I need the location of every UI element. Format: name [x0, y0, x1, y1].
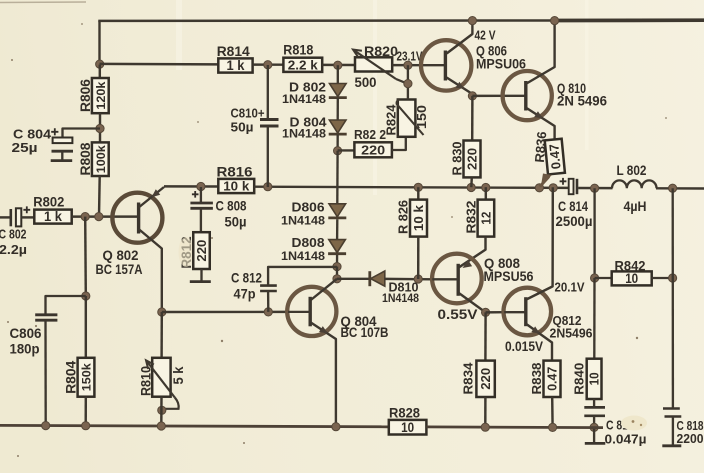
svg-text:MPSU06: MPSU06 [476, 57, 526, 72]
transistor Q806 emitter arrow [456, 82, 467, 92]
node R826 bottom junction [414, 275, 422, 283]
svg-text:D808: D808 [292, 235, 325, 250]
svg-text:20.1V: 20.1V [555, 280, 585, 295]
node Q812 base junction [482, 308, 490, 316]
node R832 top junction [482, 183, 490, 191]
svg-text:C 812: C 812 [231, 271, 262, 286]
transistor Q810 circle [503, 71, 552, 120]
resistor R838 [544, 361, 561, 397]
capacitor C804 plus mark [51, 128, 58, 135]
capacitor C802 plus mark [23, 206, 30, 213]
capacitor C810 top plate [260, 118, 279, 121]
wire D808 to node A [336, 255, 338, 267]
node C816 bottom rail junction [590, 423, 598, 431]
wire C812 top branch [268, 267, 337, 285]
svg-text:1N4148: 1N4148 [382, 291, 419, 305]
svg-text:100k: 100k [94, 145, 108, 173]
svg-text:C 802: C 802 [0, 227, 27, 242]
wire R818 to R820 [322, 64, 355, 67]
svg-text:220: 220 [194, 240, 209, 262]
wire C816 bottom stub [593, 427, 595, 442]
wire C806 branch [46, 296, 86, 314]
wire top supply rail thick right segment [556, 18, 704, 22]
wire bottom rail left of R828 [0, 425, 389, 426]
transistor Q802 collector lead [139, 229, 162, 312]
resistor R836 box tilted [545, 139, 565, 175]
svg-text:D806: D806 [292, 200, 325, 215]
capacitor C814 plus mark [560, 178, 567, 185]
node C810 bottom junction [264, 183, 272, 191]
wire R826 bottom lead [417, 237, 420, 279]
svg-text:R828: R828 [389, 405, 420, 421]
capacitor C804 top plate [53, 138, 73, 144]
resistor R824 box [398, 100, 416, 137]
svg-text:R824: R824 [384, 105, 398, 136]
node R806 top junction [96, 60, 104, 68]
transistor Q808 circle [432, 254, 482, 304]
svg-text:0.47: 0.47 [546, 367, 560, 391]
wire R812 bottom lead [200, 269, 202, 281]
wire R840 to C816 [593, 399, 595, 407]
wire emitter rail left segment [164, 185, 218, 188]
svg-text:23.1V: 23.1V [397, 50, 424, 64]
capacitor C808 top plate [190, 202, 213, 205]
wire R822 left lead [338, 149, 355, 151]
transistor Q806 circle [421, 40, 471, 90]
svg-text:10: 10 [401, 420, 414, 435]
resistor R822 [354, 142, 392, 157]
capacitor C814 right plate [576, 179, 579, 194]
capacitor C812 bottom plate [260, 290, 277, 293]
svg-text:R832: R832 [464, 201, 479, 234]
svg-text:C806: C806 [10, 326, 42, 341]
wire node B to D810 cathode [337, 278, 370, 280]
svg-text:0.047µ: 0.047µ [605, 432, 647, 447]
capacitor C816 bottom plate [584, 414, 605, 417]
svg-text:2200: 2200 [677, 431, 704, 446]
potentiometer R810 wiper hook [162, 398, 179, 409]
transistor Q810 base bar [524, 81, 527, 111]
node C806 bottom junction [42, 422, 50, 430]
wire R804 top lead [85, 296, 87, 358]
resistor R830 [464, 141, 481, 178]
svg-text:R 826: R 826 [396, 200, 411, 234]
wire D804 to R822 node [336, 135, 338, 151]
resistor R840 [587, 359, 602, 399]
svg-text:220: 220 [478, 368, 493, 390]
capacitor C806 bottom plate [35, 319, 57, 322]
transistor Q810 emitter lead [527, 108, 555, 140]
svg-text:50µ: 50µ [225, 215, 247, 230]
transistor Q804 base bar [309, 297, 312, 327]
svg-text:R838: R838 [529, 363, 544, 395]
svg-text:0.015V: 0.015V [505, 339, 543, 354]
wire bottom rail right of R828 [426, 425, 603, 429]
wire D810 anode to Q808 base [385, 278, 433, 281]
resistor R812 smear blob [179, 237, 194, 267]
wire R832 bottom lead to Q808 emitter [459, 237, 485, 268]
svg-text:1N4148: 1N4148 [281, 249, 325, 263]
capacitor C818 bottom plate [665, 415, 682, 418]
node R810 wiper junction [158, 406, 166, 414]
wire R834 bottom lead [484, 397, 487, 427]
inductor L802 [612, 180, 657, 188]
capacitor C816 top plate [584, 406, 605, 409]
wire R832 top lead [485, 187, 487, 199]
svg-text:220: 220 [361, 142, 385, 157]
scan crease artifacts [373, 0, 377, 195]
node R810 bottom junction [157, 422, 165, 430]
node R842 left junction [591, 274, 599, 282]
svg-text:L 802: L 802 [617, 163, 647, 178]
node R820 wiper junction [404, 80, 412, 88]
node C810 top junction [264, 61, 272, 69]
svg-text:R840: R840 [571, 363, 586, 395]
svg-text:C 808: C 808 [216, 198, 247, 213]
node C808 junction [197, 182, 205, 190]
transistor Q806 collector lead [447, 21, 473, 54]
svg-text:150k: 150k [80, 363, 94, 391]
wire R824 top lead [407, 65, 409, 99]
diode D806 [329, 204, 346, 217]
wire feedback column upper [84, 217, 87, 296]
resistor R816 [218, 179, 254, 193]
wire R806 to R808 [99, 113, 101, 142]
node R804 bottom junction [82, 422, 90, 430]
transistor Q812 emitter lead [526, 324, 552, 361]
diode D810 [371, 271, 385, 286]
svg-text:150: 150 [415, 105, 429, 129]
diode D804 [329, 120, 346, 133]
transistor Q804 circle [287, 287, 336, 336]
wire Q810 base from Q806 emitter [472, 95, 503, 98]
diode D802 [330, 84, 347, 97]
wire row-B to R814 [100, 63, 219, 66]
resistor R806 [92, 78, 109, 113]
transistor Q802 emitter arrow PNP [149, 189, 160, 200]
svg-text:R804: R804 [62, 361, 78, 394]
svg-text:1N4148: 1N4148 [282, 126, 326, 140]
terminal bar below C816 [585, 442, 606, 445]
svg-text:47p: 47p [234, 287, 256, 302]
node R822 left junction [334, 147, 342, 155]
wire R834 top lead [484, 312, 487, 360]
node Q804 emitter bottom junction [332, 423, 340, 431]
transistor Q812 base bar [524, 297, 527, 326]
node R842 right junction [669, 274, 677, 282]
resistor R842 [612, 271, 652, 285]
wire C808 to R812 [200, 208, 202, 232]
svg-text:R816: R816 [217, 164, 253, 180]
resistor R832 [478, 200, 495, 237]
wire R838 bottom lead [551, 397, 554, 427]
wire D802 to D804 [337, 98, 339, 120]
diode D810 cathode bar [368, 271, 371, 286]
wire C806 bottom lead [44, 320, 47, 426]
wire R830 bottom lead [470, 177, 473, 187]
transistor Q808 collector lead [459, 293, 486, 312]
svg-text:10: 10 [625, 271, 638, 286]
svg-text:2.2 k: 2.2 k [288, 57, 319, 72]
node R836 bottom junction [535, 184, 543, 192]
resistor R814 [218, 58, 252, 72]
transistor Q802 base bar [137, 203, 140, 234]
svg-text:R 830: R 830 [449, 142, 464, 176]
node A C812 branch junction [333, 263, 341, 271]
svg-text:220: 220 [465, 148, 480, 170]
svg-text:R818: R818 [283, 42, 313, 58]
transistor Q812 emitter arrow [531, 326, 542, 336]
wire R806 top lead [99, 65, 101, 78]
terminal bar below R812 [190, 280, 211, 283]
wire Q804 base [162, 311, 288, 314]
resistor R824 diagonal [397, 99, 424, 135]
capacitor C802 right plate [16, 208, 21, 226]
wire Q812 base [486, 311, 505, 314]
capacitor C802 left plate [10, 209, 13, 226]
transistor Q804 collector lead [311, 279, 337, 300]
svg-text:C 814: C 814 [558, 199, 588, 214]
svg-text:1 k: 1 k [226, 58, 244, 73]
wire R842 column upper [593, 188, 595, 278]
trimmer R820 box [355, 57, 392, 71]
wire C814 to L802 [578, 187, 612, 190]
transistor Q812 collector lead [526, 187, 553, 299]
wire R808 bottom lead [98, 176, 101, 217]
wire C816 to bottom rail [593, 416, 595, 427]
wire diode chain through rail [336, 151, 339, 204]
resistor R818 [283, 58, 322, 72]
transistor Q808 base bar [457, 264, 460, 296]
wire R804 bottom lead [84, 397, 87, 427]
diode D808 [329, 240, 346, 253]
transistor Q808 emitter arrow PNP [460, 260, 472, 271]
svg-text:R814: R814 [217, 43, 250, 59]
svg-text:R806: R806 [77, 79, 93, 112]
resistor R828 [389, 420, 427, 435]
svg-text:MPSU56: MPSU56 [484, 269, 534, 284]
svg-text:R834: R834 [460, 362, 475, 395]
capacitor C818 top plate [663, 407, 680, 410]
resistor R812 [193, 232, 210, 269]
svg-text:120k: 120k [94, 81, 108, 109]
wire C804 branch [63, 129, 101, 138]
wire corner drop from top rail to R806 node [98, 21, 100, 65]
transistor Q810 collector lead [527, 21, 555, 84]
svg-text:0.47: 0.47 [546, 143, 563, 170]
node B Q804 collector junction [333, 275, 341, 283]
terminal bar below C818 [662, 444, 681, 447]
wire R820 to Q806 base [392, 64, 421, 67]
svg-text:25µ: 25µ [12, 140, 38, 155]
potentiometer R810 box [152, 358, 170, 397]
node R826 top junction [414, 183, 422, 191]
wire R842 left lead [595, 277, 612, 279]
capacitor C810 bottom plate [260, 125, 279, 128]
capacitor C814 left plate [569, 179, 574, 194]
svg-text:4µH: 4µH [624, 199, 647, 214]
wire D802 anode lead [337, 65, 339, 83]
wire L802 to right edge [656, 187, 704, 190]
node Q804 base branch junction [158, 308, 166, 316]
node D802 top junction [334, 61, 342, 69]
transistor Q804 emitter lead [311, 323, 336, 427]
transistor Q808 base lead inside [432, 278, 458, 280]
wire R814 to R818 [253, 63, 284, 66]
transistor Q812 circle [504, 288, 552, 336]
svg-text:C810+: C810+ [231, 106, 265, 121]
node Q806 base junction [404, 61, 412, 69]
potentiometer R810 wiper arrow diagonal [147, 362, 175, 398]
wire R830 top lead [471, 96, 474, 141]
transistor Q806 base bar [444, 51, 447, 81]
resistor R836 bottom lead wedge [541, 174, 552, 186]
node output right junction [669, 184, 677, 192]
node C812 bottom junction [264, 308, 272, 316]
svg-text:1N4148: 1N4148 [281, 213, 325, 227]
wire input from left edge [0, 216, 10, 218]
svg-text:180p: 180p [10, 342, 40, 357]
svg-text:10: 10 [587, 372, 602, 385]
wire C812 bottom lead [267, 291, 270, 312]
node C806 branch junction [82, 292, 90, 300]
svg-text:2500µ: 2500µ [556, 214, 593, 229]
transistor Q804 emitter arrow [319, 326, 330, 336]
svg-text:5 k: 5 k [171, 366, 186, 384]
node Q806 emitter junction [468, 92, 476, 100]
transistor Q810 emitter arrow [534, 111, 545, 121]
wire R802 to Q802 base [72, 215, 113, 217]
svg-text:BC 107B: BC 107B [341, 324, 389, 340]
svg-text:2.2µ: 2.2µ [0, 242, 27, 257]
node R838 bottom junction [549, 423, 557, 431]
wire C810 bottom lead [267, 126, 269, 187]
wire emitter rail main segment [254, 187, 569, 188]
wire node A to node B [336, 267, 338, 279]
node R842 column top junction [591, 184, 599, 192]
svg-text:0.55V: 0.55V [438, 307, 478, 322]
resistor R808 [92, 142, 109, 176]
wire C818 bottom stub [672, 417, 674, 446]
transistor Q802 emitter lead [139, 187, 164, 208]
node R830 bottom junction [467, 183, 475, 191]
wire top supply rail [98, 19, 560, 22]
transistor Q802 base lead inside [113, 215, 138, 217]
node feedback column junction [81, 213, 89, 221]
svg-text:1 k: 1 k [44, 209, 62, 224]
transistor Q810 base lead inside [503, 95, 526, 97]
node top rail Q806 collector junction [468, 17, 476, 25]
transistor Q806 base lead inside [422, 64, 447, 66]
capacitor C808 plus mark [192, 191, 199, 198]
wire R842 right lead [652, 277, 673, 279]
svg-text:50µ: 50µ [231, 120, 254, 135]
trimmer R820 wiper arrow diagonal [354, 50, 396, 79]
wire C808 top lead [200, 187, 202, 202]
wire R840 top lead [593, 278, 596, 359]
svg-text:R82 2: R82 2 [354, 127, 386, 142]
capacitor C806 top plate [35, 313, 57, 316]
transistor Q806 emitter lead [447, 78, 473, 97]
wire R826 top lead [417, 187, 419, 199]
svg-text:42 V: 42 V [475, 28, 496, 43]
capacitor C812 top plate [260, 284, 277, 287]
node Q812 collector rail junction [549, 184, 557, 192]
node C804 branch junction [96, 124, 104, 132]
transistor Q802 circle [112, 193, 162, 243]
svg-text:2N 5496: 2N 5496 [557, 94, 607, 109]
svg-text:R802: R802 [33, 193, 64, 209]
svg-text:10 k: 10 k [411, 204, 426, 231]
resistor R834 [476, 361, 494, 397]
resistor R826 [410, 200, 427, 237]
wire C802 to R802 [21, 216, 34, 218]
wire C810 top lead [267, 65, 269, 119]
capacitor C808 bottom plate [190, 207, 213, 210]
resistor R802 [34, 210, 71, 224]
wire C804 bottom lead [61, 151, 63, 160]
wire D806 to D808 [336, 219, 339, 239]
wire R822 right lead to R824 [392, 137, 406, 150]
svg-text:BC 157A: BC 157A [96, 261, 143, 277]
resistor R804 [78, 358, 95, 397]
capacitor C804 bottom plate [52, 150, 74, 153]
svg-text:R808: R808 [77, 142, 93, 175]
svg-text:2N5496: 2N5496 [550, 326, 593, 341]
wire R810 bottom lead [160, 397, 163, 427]
svg-text:10 k: 10 k [223, 179, 250, 194]
terminal bar below C804 [51, 159, 72, 162]
svg-text:500: 500 [355, 75, 377, 90]
wire right column to C818 [672, 188, 675, 408]
node R834 bottom junction [481, 423, 489, 431]
node top rail Q810 collector junction [551, 17, 559, 25]
node R808 bottom junction [95, 213, 103, 221]
svg-text:12: 12 [479, 212, 494, 225]
svg-text:1N4148: 1N4148 [282, 92, 326, 106]
wire R810 top lead [160, 312, 163, 358]
